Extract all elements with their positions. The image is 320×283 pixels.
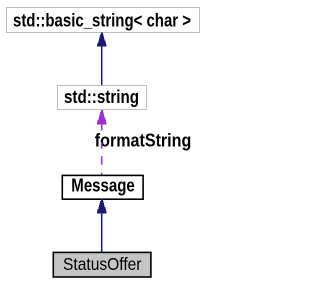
wire [101,46,103,85]
svg-text:Message: Message [71,176,135,196]
node Message [62,175,143,199]
inheritance arrowhead std::string -> std::basic_string [97,33,107,47]
svg-text:std::basic_string< char >: std::basic_string< char > [13,10,191,30]
inheritance arrowhead StatusOffer -> Message [97,199,107,213]
svg-text:std::string: std::string [64,87,139,107]
dashed wire [101,124,103,130]
node std::basic_string< char > [7,8,200,33]
usage arrowhead Message -> std::string [97,110,107,124]
svg-text:formatString: formatString [95,130,192,150]
node std::string [58,86,147,110]
dash fragment crossing label [101,142,103,148]
wire [101,213,103,252]
svg-text:StatusOffer: StatusOffer [63,254,142,274]
node StatusOffer (current class, grey fill) [53,252,151,277]
